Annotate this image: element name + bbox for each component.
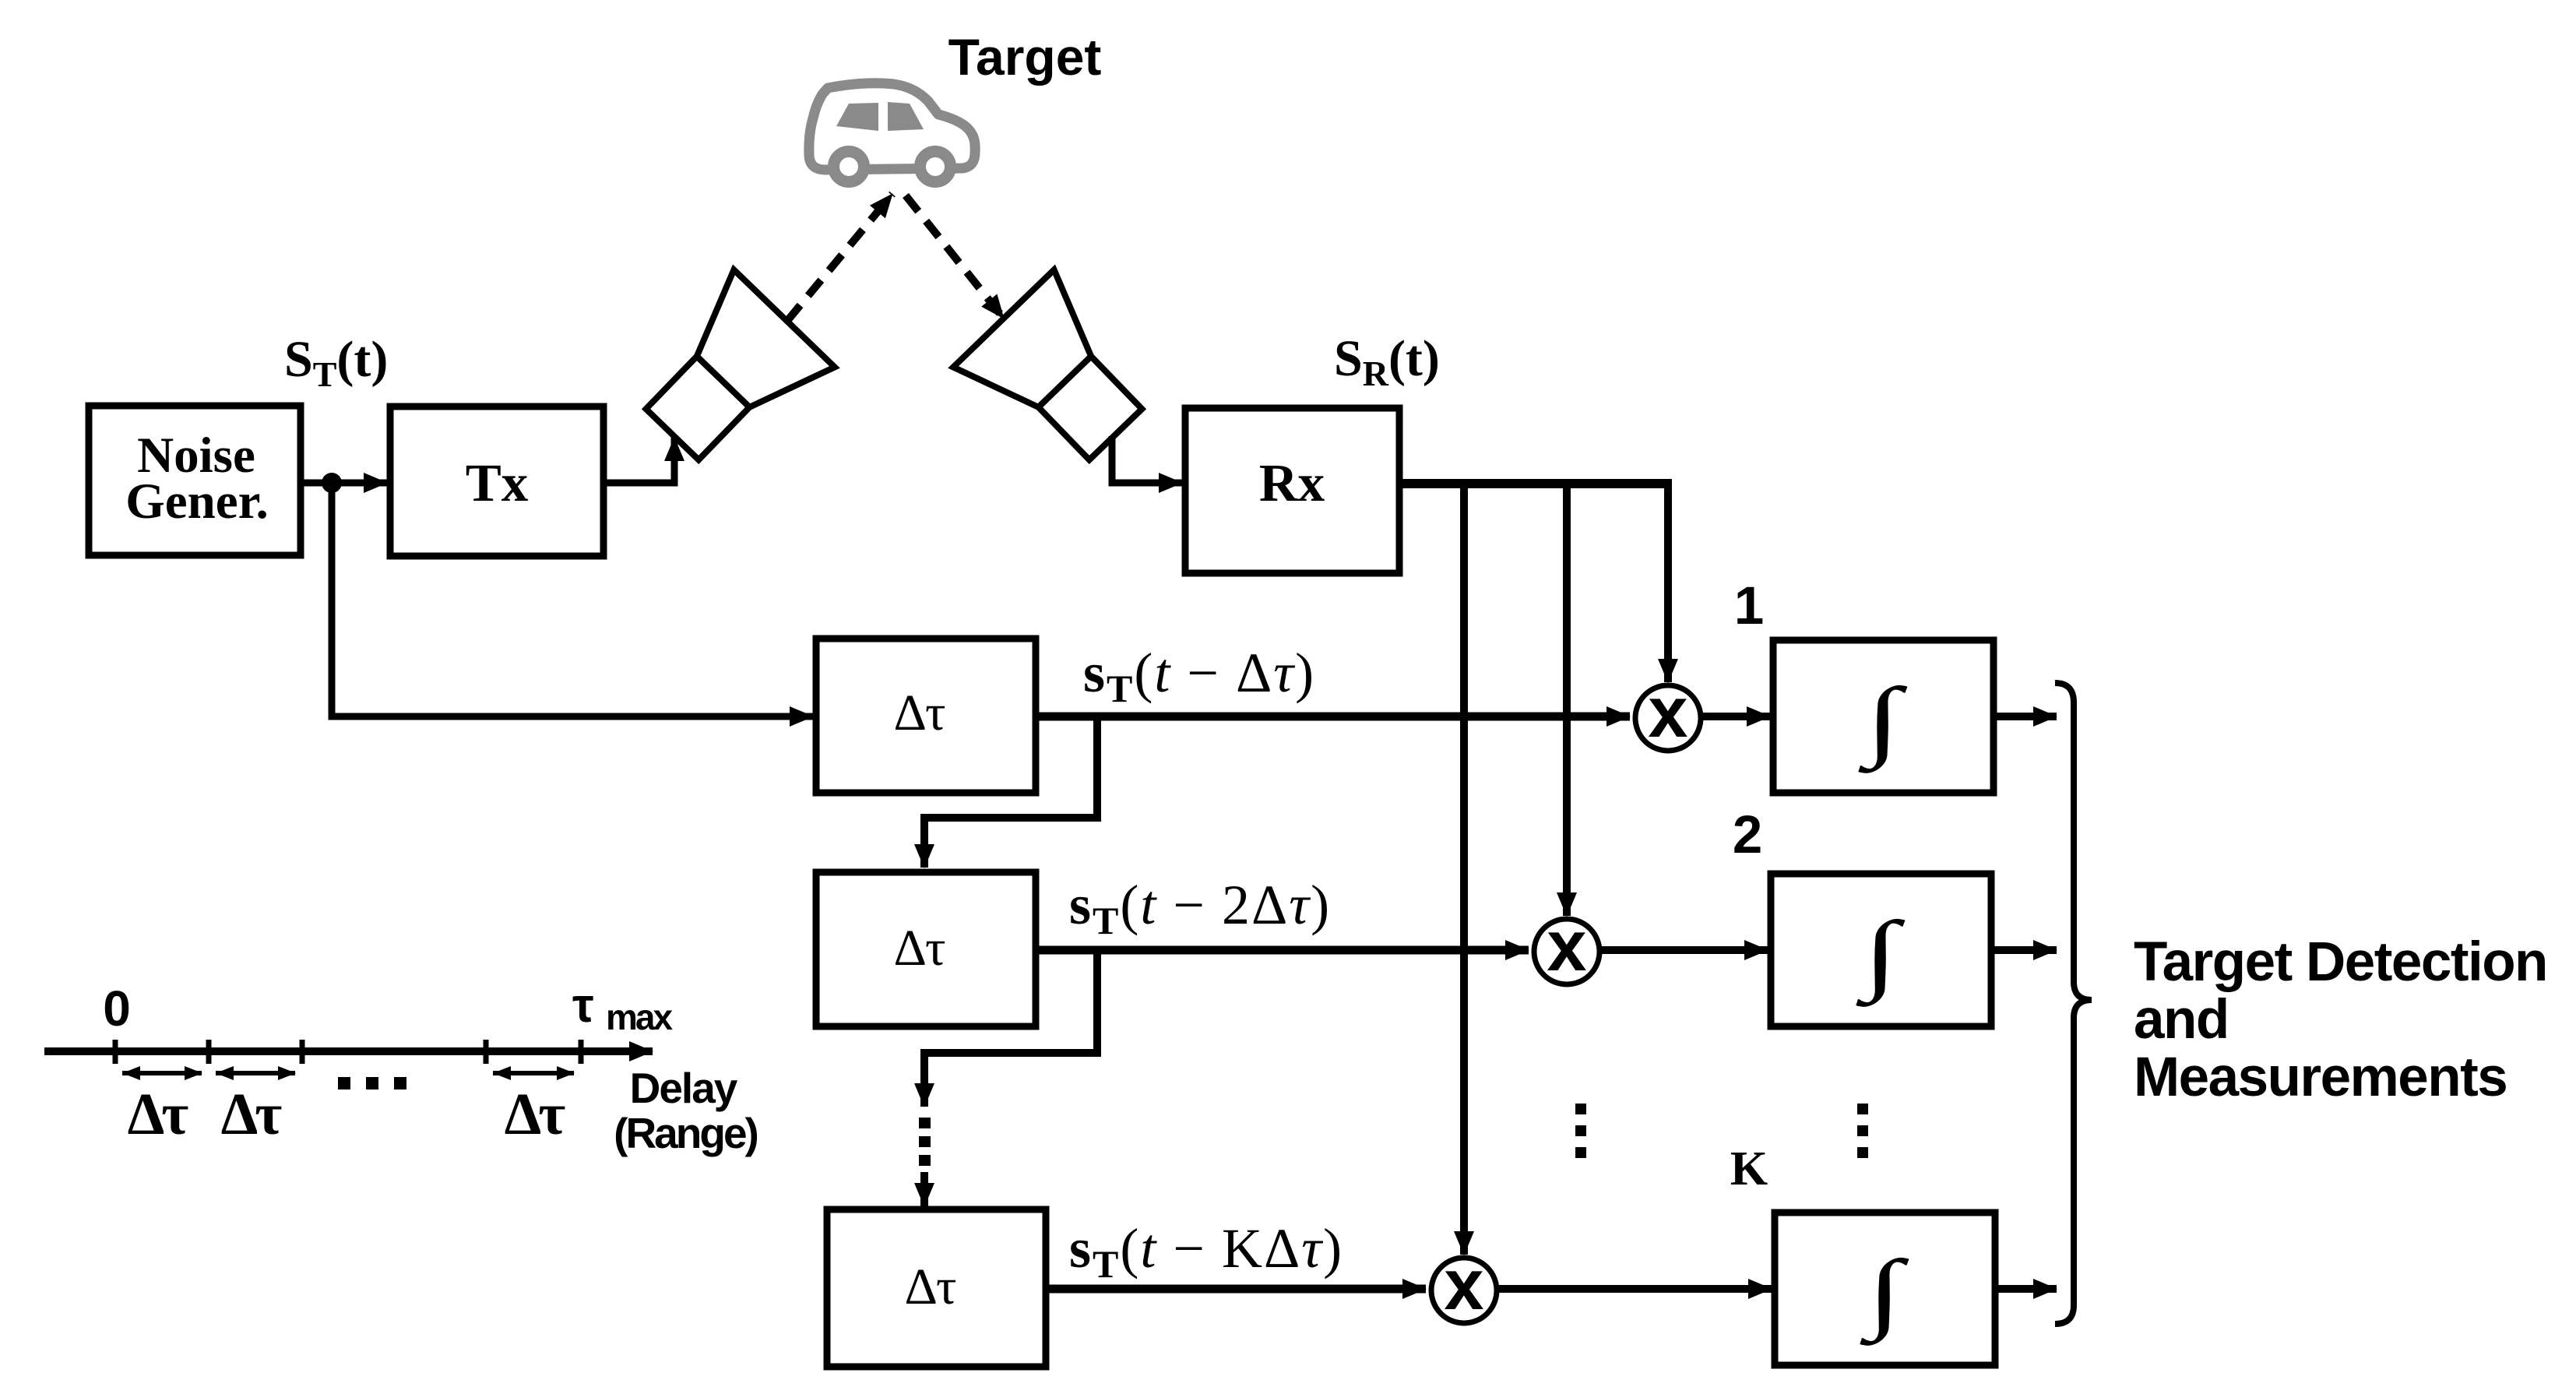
wire Rx drop to multiplier 3 [1460,479,1468,1255]
svg-text:Δτ: Δτ [894,920,945,977]
svg-text:x: x [1648,673,1687,752]
noise generator box [89,406,301,555]
wire delay3 to multiplier 3 [1046,1285,1426,1294]
span arrow dt 2 [216,1071,295,1075]
delay box 3 [827,1209,1046,1367]
integrator 3 [1775,1213,1995,1365]
dashed wave Tx antenna to target [787,194,892,321]
svg-text:1: 1 [1734,576,1764,635]
wire Rx drop to multiplier 1 [1664,479,1672,682]
svg-text:Δτ: Δτ [128,1082,189,1147]
svg-text:Δτ: Δτ [221,1082,283,1147]
delay box 1 [816,639,1036,793]
Rx horn antenna [953,269,1166,483]
car icon (target vehicle) [809,83,975,182]
wire Rx antenna to Rx [1112,436,1182,483]
svg-text:Target: Target [948,28,1102,86]
integrator 1 [1773,640,1994,793]
svg-text:ST(t): ST(t) [284,331,388,394]
svg-text:Rx: Rx [1259,453,1325,512]
wire multiplier1 to integrator1 [1703,713,1770,720]
wire delay1 to multiplier 1 [1036,713,1630,721]
dots ellipsis branch [919,1118,931,1166]
svg-text:∫: ∫ [1856,903,1906,1007]
delay axis line [44,1047,653,1055]
integrator 2 [1771,874,1991,1026]
multiplier M1 [1635,673,1701,752]
Rx box [1185,408,1399,573]
wire multiplier3 to integrator3 [1499,1285,1772,1293]
multiplier M3 [1431,1245,1497,1325]
svg-text:Δτ: Δτ [505,1082,566,1147]
wire integrator2 output [1991,946,2057,954]
node junction dot [322,473,342,493]
dots ellipsis integrators column [1857,1104,1868,1158]
wire branch delay1 to delay2 [924,716,1097,868]
span arrow dt 1 [122,1071,202,1075]
axis tick 3 [300,1040,305,1064]
svg-text:Δτ: Δτ [905,1258,956,1315]
axis tick 4 [484,1040,489,1064]
svg-text:∫: ∫ [1860,1241,1909,1346]
wire multiplier2 to integrator2 [1602,946,1768,954]
wire integrator3 output [1995,1285,2057,1293]
wire integrator1 output [1994,713,2057,720]
svg-text:x: x [1547,906,1586,986]
dashed wave target to Rx antenna [906,195,1004,319]
svg-text:Delay: Delay [630,1064,738,1112]
axis tick tau max [579,1040,584,1064]
multiplier M2 [1534,906,1599,986]
svg-text:2: 2 [1733,804,1762,864]
axis tick 2 [206,1040,212,1064]
wire arrow into delay 3 [920,1172,928,1206]
span arrow dt 3 [493,1071,574,1075]
wire Rx output bus [1399,479,1668,488]
svg-text:and: and [2134,989,2229,1051]
svg-text:Measurements: Measurements [2134,1047,2507,1108]
brace bracket outputs [2055,683,2092,1324]
wire branch delay2 down [924,950,1097,1107]
wire delay2 to multiplier 2 [1036,946,1529,955]
svg-text:0: 0 [103,980,131,1037]
wire noise generator to Tx [304,480,387,487]
svg-text:Gener.: Gener. [125,473,269,530]
wire Tx to Tx antenna [604,438,674,483]
svg-text:∫: ∫ [1858,669,1908,773]
svg-text:Δτ: Δτ [894,685,945,741]
delay box 2 [816,872,1036,1026]
svg-text:Tx: Tx [466,453,529,512]
wire junction down and to delay 1 [332,483,813,716]
axis tick 0 [113,1040,118,1064]
svg-text:x: x [1444,1245,1483,1325]
svg-text:(Range): (Range) [614,1109,757,1157]
dots ellipsis axis [338,1077,406,1090]
Tx box [390,407,604,556]
svg-text:K: K [1730,1142,1768,1195]
svg-text:max: max [606,997,673,1037]
Tx horn antenna [622,269,835,483]
svg-text:Target Detection: Target Detection [2134,931,2547,993]
svg-text:τ: τ [572,979,594,1033]
dots ellipsis multipliers column [1575,1104,1586,1158]
wire Rx drop to multiplier 2 [1563,479,1571,916]
